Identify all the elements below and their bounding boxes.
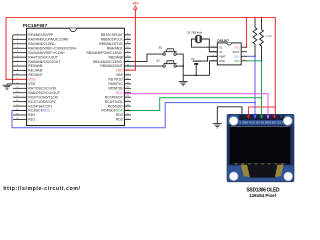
svg-text:32.768 kHz: 32.768 kHz	[187, 30, 203, 34]
svg-text:RB3/AN9/PGM/C12IN2-: RB3/AN9/PGM/C12IN2-	[86, 51, 122, 55]
svg-text:RE0/AN5: RE0/AN5	[28, 64, 42, 68]
svg-text:RB6/ICSPCLK: RB6/ICSPCLK	[101, 38, 124, 42]
svg-text:GND: GND	[219, 59, 225, 63]
svg-text:SDA: SDA	[234, 59, 240, 63]
svg-text:RA4/T0CKI/C1OUT: RA4/T0CKI/C1OUT	[28, 55, 58, 59]
svg-text:2x10k: 2x10k	[265, 34, 273, 38]
svg-text:1 GND VCC D0 D1 RES DC CS 7: 1 GND VCC D0 D1 RES DC CS 7	[240, 120, 285, 124]
svg-text:RB2/AN8: RB2/AN8	[109, 55, 123, 59]
svg-text:RC5/SDO: RC5/SDO	[108, 104, 123, 108]
svg-text:RB7/ICSPDAT: RB7/ICSPDAT	[101, 33, 123, 37]
svg-text:RD3: RD3	[116, 113, 123, 117]
svg-text:VDD: VDD	[116, 69, 124, 73]
svg-text:RD2: RD2	[116, 118, 123, 122]
svg-text:RB1/AN10/C12IN3-: RB1/AN10/C12IN3-	[93, 60, 123, 64]
svg-text:+5V: +5V	[132, 2, 139, 6]
svg-text:VSS: VSS	[28, 82, 36, 86]
svg-text:RD6/P1C: RD6/P1C	[108, 82, 123, 86]
svg-text:RE2/AN7: RE2/AN7	[28, 73, 42, 77]
svg-text:http://simple-circuit.com/: http://simple-circuit.com/	[3, 186, 80, 192]
svg-text:RA1/AN1/C12IN1-: RA1/AN1/C12IN1-	[28, 42, 56, 46]
svg-text:RC7/RX/DT: RC7/RX/DT	[105, 95, 123, 99]
svg-text:RD7/P1D: RD7/P1D	[108, 78, 123, 82]
svg-text:X1: X1	[219, 45, 223, 49]
svg-text:RE1/AN6: RE1/AN6	[28, 69, 42, 73]
svg-text:128x64 Pixel: 128x64 Pixel	[249, 193, 276, 198]
svg-text:B1: B1	[157, 59, 161, 63]
svg-text:VBAT: VBAT	[219, 54, 226, 58]
svg-text:RA5/AN4/SS/C2OUT: RA5/AN4/SS/C2OUT	[28, 60, 60, 64]
svg-text:X2: X2	[219, 50, 223, 54]
svg-text:RD0: RD0	[28, 113, 35, 117]
svg-text:VSS: VSS	[116, 73, 124, 77]
svg-text:RC4/SDI/SDA: RC4/SDI/SDA	[101, 109, 123, 113]
svg-text:RC6/TX/CK: RC6/TX/CK	[105, 100, 123, 104]
svg-text:RE3/MCLR/VPP: RE3/MCLR/VPP	[28, 33, 54, 37]
svg-text:RA6/OSC2/CLKOUT: RA6/OSC2/CLKOUT	[28, 91, 59, 95]
svg-text:VDD: VDD	[28, 78, 36, 82]
svg-text:RD4: RD4	[116, 91, 123, 95]
svg-text:RA7/OSC1/CLKIN: RA7/OSC1/CLKIN	[28, 86, 56, 90]
svg-text:RC2/P1A/CCP1: RC2/P1A/CCP1	[28, 104, 52, 108]
svg-text:RA0/AN0/ULPWU/C12IN0-: RA0/AN0/ULPWU/C12IN0-	[28, 38, 69, 42]
svg-text:RB4/AN11: RB4/AN11	[107, 46, 123, 50]
svg-text:SOUT: SOUT	[232, 50, 240, 54]
svg-text:B2: B2	[159, 45, 163, 49]
svg-text:RB0/AN12/INT: RB0/AN12/INT	[100, 64, 122, 68]
svg-text:3V: 3V	[191, 57, 194, 61]
svg-text:PIC16F887: PIC16F887	[23, 23, 48, 28]
svg-text:RC3/SCK/SCL: RC3/SCK/SCL	[28, 109, 50, 113]
svg-text:SCL: SCL	[235, 54, 241, 58]
svg-text:VCC: VCC	[234, 45, 240, 49]
svg-text:RA2/AN2/VREF-/CVREF/C2IN+: RA2/AN2/VREF-/CVREF/C2IN+	[28, 46, 76, 50]
svg-text:RC0/T1OSO/T1CKI: RC0/T1OSO/T1CKI	[28, 95, 58, 99]
svg-text:RD1: RD1	[28, 118, 35, 122]
svg-text:DS1307: DS1307	[217, 39, 229, 43]
svg-text:RA3/AN3/VREF+/C1IN+: RA3/AN3/VREF+/C1IN+	[28, 51, 65, 55]
svg-text:RD5/P1B: RD5/P1B	[109, 86, 124, 90]
svg-text:RC1/T1OSI/CCP2: RC1/T1OSI/CCP2	[28, 100, 56, 104]
svg-text:RB5/AN13/T1G: RB5/AN13/T1G	[99, 42, 123, 46]
